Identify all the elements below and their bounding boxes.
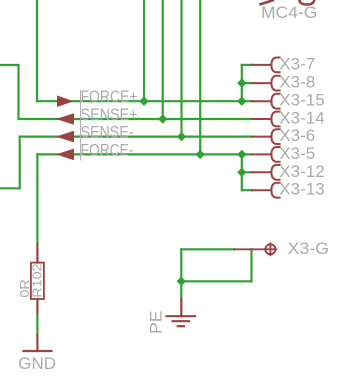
connector pin X3-8 xyxy=(252,76,280,91)
label tick FORCE+ xyxy=(80,90,82,107)
svg-text:0R: 0R xyxy=(17,279,32,297)
connector U1 MC4-G fragment (slash) xyxy=(261,0,273,4)
wire vertical from MC4 pin4 to FORCE- xyxy=(199,0,201,154)
wire net SENSE+ left horizontal xyxy=(0,64,19,66)
svg-text:FORCE-: FORCE- xyxy=(81,140,134,159)
wire PE down from junction xyxy=(180,281,182,299)
junction right bus X3-12 xyxy=(237,168,246,177)
svg-text:PE: PE xyxy=(146,311,165,335)
resistor R102 pin bottom xyxy=(36,299,38,315)
label tick SENSE- xyxy=(80,126,82,143)
wire net SENSE- left vertical xyxy=(19,137,21,189)
supply PE symbol xyxy=(167,299,196,326)
svg-text:X3-15: X3-15 xyxy=(279,91,324,110)
wire PE loop left vertical xyxy=(180,249,182,281)
connector pin X3-13 xyxy=(252,183,280,198)
wire vertical from MC4 pin2 to SENSE+ xyxy=(162,0,164,119)
wire vertical from MC4 pin1 to FORCE+ xyxy=(143,0,145,101)
svg-text:MC4-G: MC4-G xyxy=(261,3,317,22)
wire PE loop right vertical xyxy=(250,249,252,281)
xref arrow FORCE+ (points right) xyxy=(57,95,74,107)
connector pin X3-7 xyxy=(252,58,280,73)
xref arrow SENSE- (points left) xyxy=(56,131,74,143)
connector pin X3-G xyxy=(234,243,276,255)
wire X3-12 row xyxy=(242,171,252,173)
resistor R102 pin top xyxy=(36,244,38,263)
connector pin X3-6 xyxy=(252,129,280,144)
connector pin X3-5 xyxy=(252,147,280,162)
wire net SENSE- bottom horizontal xyxy=(0,187,20,189)
junction on FORCE+ at MC4 vertical xyxy=(139,97,148,106)
junction right bus X3-5 xyxy=(237,150,246,159)
wire net FORCE- vertical to R102 xyxy=(36,154,38,244)
connector U1 MC4-G fragment (cup) xyxy=(299,0,314,5)
xref arrow FORCE- (points left) xyxy=(56,149,74,161)
svg-text:X3-12: X3-12 xyxy=(279,162,324,181)
junction PE loop xyxy=(177,277,186,286)
junction right bus X3-8 xyxy=(237,78,246,87)
label tick FORCE- xyxy=(80,144,82,161)
connector pin X3-12 xyxy=(252,165,280,180)
wire net SENSE- row xyxy=(20,136,252,138)
svg-text:X3-5: X3-5 xyxy=(279,144,315,163)
wire X3-13 row xyxy=(242,189,252,191)
wire X3-7 row xyxy=(242,64,252,66)
wire right bus X3-5 to X3-13 xyxy=(241,154,243,190)
wire X3-G row green xyxy=(181,248,234,250)
svg-text:SENSE-: SENSE- xyxy=(81,123,134,142)
wire R102 to GND xyxy=(36,315,38,335)
wire net FORCE+ top vertical xyxy=(36,0,38,101)
connector pin X3-14 xyxy=(252,112,280,127)
svg-text:SENSE+: SENSE+ xyxy=(81,105,138,124)
wire net FORCE+ row xyxy=(37,100,252,102)
wire PE loop bottom xyxy=(181,280,251,282)
svg-text:X3-6: X3-6 xyxy=(279,126,315,145)
svg-text:X3-7: X3-7 xyxy=(279,54,315,73)
svg-text:X3-13: X3-13 xyxy=(279,180,324,199)
junction on SENSE- at MC4 vertical xyxy=(177,132,186,141)
svg-text:FORCE+: FORCE+ xyxy=(81,87,138,106)
junction on FORCE- at MC4 vertical xyxy=(196,150,205,159)
label tick SENSE+ xyxy=(80,108,82,125)
resistor R102 body xyxy=(31,263,44,299)
junction on SENSE+ at MC4 vertical xyxy=(158,114,167,123)
svg-text:X3-G: X3-G xyxy=(288,239,329,258)
wire net SENSE+ left vertical xyxy=(17,65,19,119)
svg-text:X3-8: X3-8 xyxy=(279,73,315,92)
wire net FORCE- row xyxy=(37,153,252,155)
svg-text:X3-14: X3-14 xyxy=(279,109,324,128)
wire vertical from MC4 pin3 to SENSE- xyxy=(180,0,182,137)
wire net SENSE+ row xyxy=(19,118,253,120)
svg-text:GND: GND xyxy=(18,354,56,373)
junction right bus X3-15 xyxy=(237,97,246,106)
ground GND symbol xyxy=(23,335,51,351)
wire right bus X3-7 to X3-15 xyxy=(241,65,243,101)
xref arrow SENSE+ (points left) xyxy=(56,113,74,125)
connector pin X3-15 xyxy=(252,94,280,109)
wire X3-8 row xyxy=(242,82,252,84)
